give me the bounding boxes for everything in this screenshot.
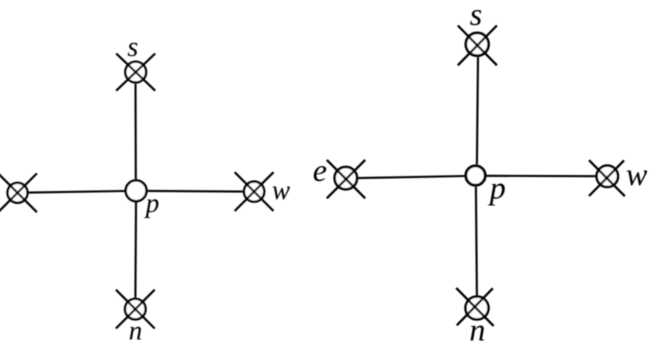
wire p-n (left) [134, 202, 137, 297]
svg-text:p: p [144, 188, 160, 218]
wire s-p (right) [477, 57, 478, 164]
node e (left, clipped at edge, unlabeled) [0, 173, 37, 212]
node p (left) [126, 180, 147, 201]
node e (right) [327, 160, 365, 198]
node s (right) [458, 26, 497, 66]
node n (right) [456, 288, 493, 326]
svg-text:s: s [470, 0, 482, 32]
wire p-n (right) [476, 187, 477, 296]
svg-text:p: p [488, 170, 506, 206]
node w (left) [235, 172, 274, 211]
svg-text:e: e [313, 152, 327, 188]
wire p-w (right) [487, 175, 596, 177]
node s (left) [116, 54, 155, 91]
wire p-w (left) [148, 190, 243, 193]
wire e-p (right) [358, 176, 464, 178]
node w (right) [589, 160, 625, 196]
svg-text:w: w [626, 156, 648, 192]
svg-text:n: n [469, 311, 485, 347]
svg-text:s: s [127, 32, 138, 63]
node n (left) [116, 290, 155, 329]
node p (right) [466, 166, 485, 185]
svg-text:n: n [129, 315, 143, 345]
wire s-p (left) [134, 84, 136, 179]
svg-text:w: w [272, 175, 290, 205]
wire e-p (left) [29, 191, 125, 193]
